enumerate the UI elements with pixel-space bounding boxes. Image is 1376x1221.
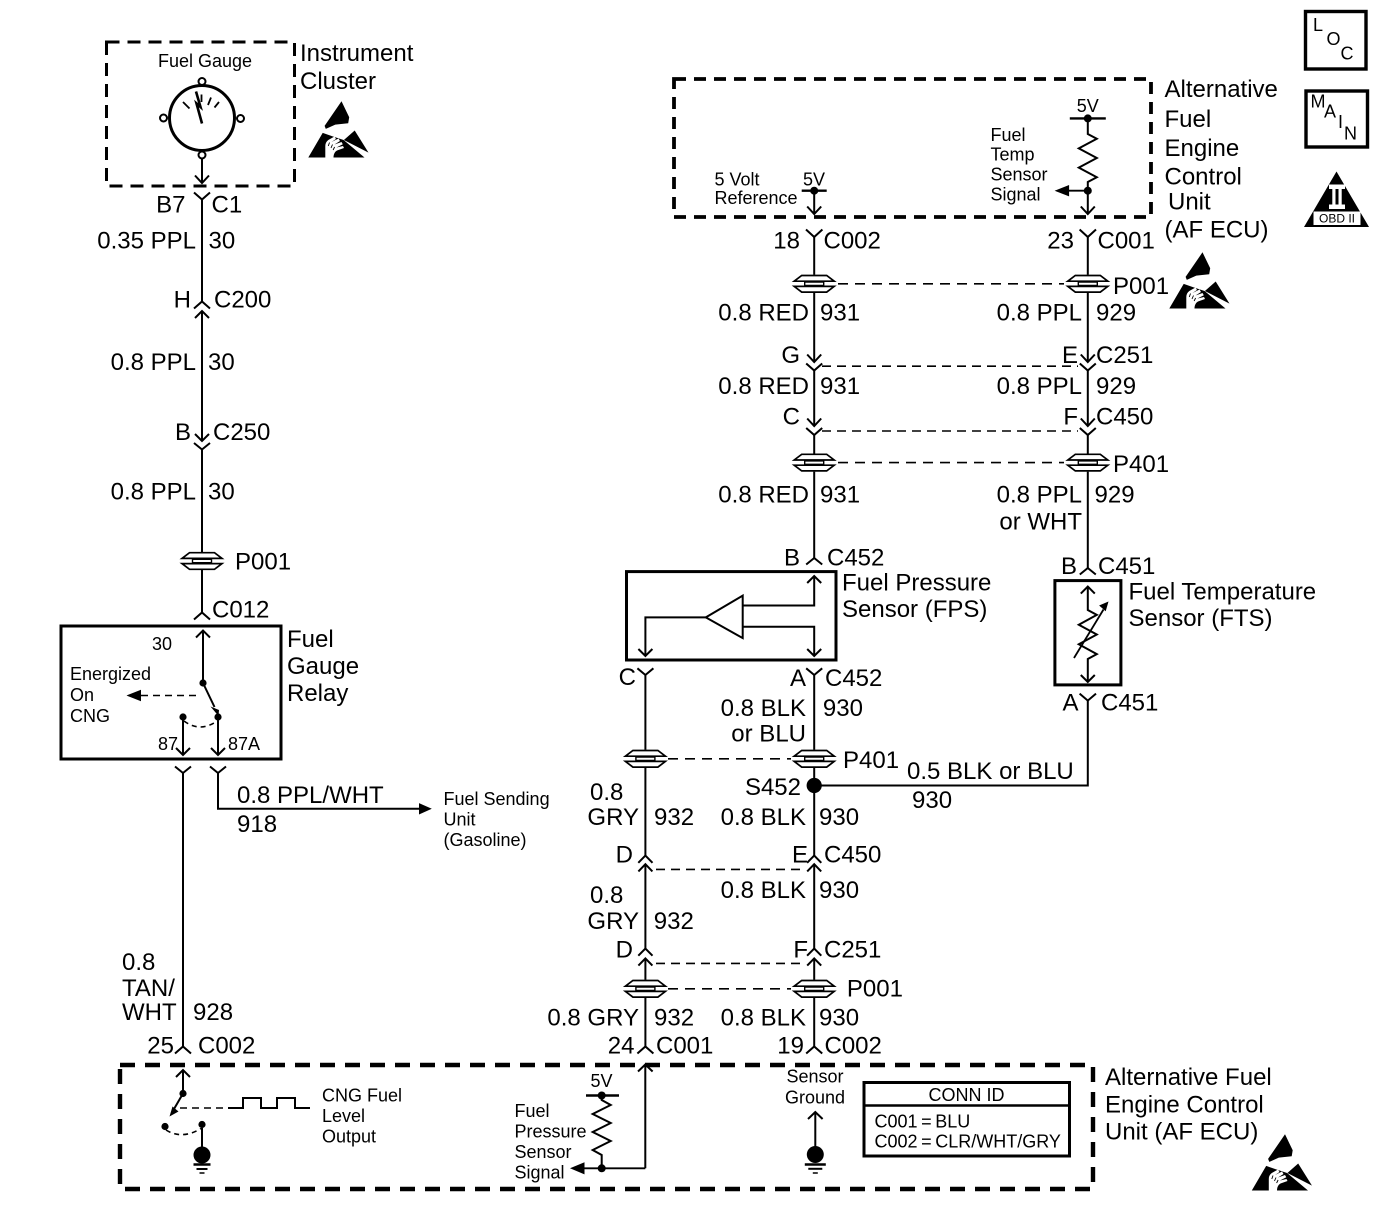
svg-text:932: 932: [654, 1005, 694, 1032]
svg-text:Output: Output: [322, 1127, 376, 1147]
svg-text:N: N: [1344, 124, 1357, 144]
P001 dashed link (lower): [668, 988, 791, 990]
OBD II symbol: [1304, 172, 1369, 228]
svg-text:Fuel Gauge: Fuel Gauge: [158, 51, 252, 71]
FPS amplifier U1: [706, 596, 743, 639]
wire to P001 (gry): [644, 958, 646, 979]
svg-text:Sensor: Sensor: [991, 165, 1048, 185]
fuel temperature sensor FTS box: [1055, 581, 1121, 685]
connector C001 pin 23: [1080, 230, 1096, 238]
svg-text:TAN/: TAN/: [122, 975, 175, 1002]
svg-text:C001: C001: [656, 1033, 713, 1060]
svg-text:Energized: Energized: [70, 664, 151, 684]
svg-text:C: C: [619, 664, 636, 691]
svg-text:0.8 PPL: 0.8 PPL: [997, 373, 1082, 400]
wire to P001 (blk): [813, 958, 815, 979]
svg-text:A: A: [1062, 690, 1078, 717]
svg-text:0.8: 0.8: [590, 779, 623, 806]
connector C450 pin E: [807, 856, 821, 872]
svg-text:C001: C001: [1098, 228, 1155, 255]
svg-text:E: E: [792, 841, 808, 868]
svg-text:Relay: Relay: [287, 680, 348, 707]
wire 0.8 GRY ckt 932 (3): [644, 864, 646, 948]
svg-text:5V: 5V: [803, 170, 825, 190]
svg-text:87: 87: [158, 734, 178, 754]
svg-text:30: 30: [152, 634, 172, 654]
wire 0.8 PPL ckt 30: [201, 311, 203, 441]
CNG switch pivot: [179, 1090, 186, 1097]
connector C452 pin C: [637, 668, 653, 675]
grommet P001 (left): [182, 553, 222, 570]
energize dashed arrow: [141, 695, 201, 697]
svg-text:H: H: [174, 287, 191, 314]
wire 0.8 PPL ckt 929: [1087, 293, 1089, 362]
P001 dashed link: [838, 283, 1064, 285]
node FPS signal junction: [598, 1164, 606, 1172]
wire 0.8 TAN/WHT ckt 928: [182, 773, 184, 1047]
relay contact 87: [179, 713, 186, 720]
connector C450 pin D: [638, 856, 652, 872]
wire to P401 (red): [813, 435, 815, 454]
ESD symbol (top right): [1169, 252, 1229, 308]
svg-text:928: 928: [193, 999, 233, 1026]
connector C250 pin B: [195, 434, 209, 441]
svg-text:(AF ECU): (AF ECU): [1165, 217, 1269, 244]
svg-text:30: 30: [209, 228, 236, 255]
connector C200 pin H: [194, 302, 210, 309]
connector C251 pin E: [1080, 355, 1096, 371]
connector C251 pin G: [806, 355, 822, 371]
svg-text:Temp: Temp: [991, 145, 1035, 165]
FPS supply input wire: [743, 576, 822, 606]
svg-text:C: C: [1341, 44, 1354, 64]
svg-text:Signal: Signal: [515, 1163, 565, 1183]
wire 0.8 PPL ckt 929 (2): [1087, 371, 1089, 427]
C251 dashed link (lower): [656, 962, 802, 964]
resistor R (FPS pull-up): [593, 1096, 611, 1169]
svg-text:Engine: Engine: [1165, 135, 1240, 162]
relay contact 87A: [214, 713, 221, 720]
CNG switch contact right: [198, 1121, 205, 1128]
svg-text:0.8 PPL: 0.8 PPL: [997, 482, 1082, 509]
svg-text:932: 932: [654, 804, 694, 831]
grommet P401 (blk): [794, 751, 834, 768]
svg-text:C251: C251: [1096, 342, 1153, 369]
svg-text:F: F: [793, 937, 808, 964]
svg-text:C452: C452: [827, 545, 884, 572]
MAIN symbol: [1306, 91, 1368, 147]
svg-text:B7: B7: [156, 192, 185, 219]
svg-text:WHT: WHT: [122, 999, 177, 1026]
CNG output dashed link: [180, 1107, 228, 1109]
svg-text:CONN ID: CONN ID: [929, 1085, 1005, 1105]
node fuel temp junction: [1084, 187, 1092, 195]
connector C452 pin B: [806, 558, 822, 565]
wire 0.8 RED ckt 931: [813, 293, 815, 362]
C251 dashed link: [822, 365, 1078, 367]
svg-text:C002: C002: [824, 228, 881, 255]
5V reference supply: [802, 170, 827, 215]
fuel pressure sensor FPS box: [627, 572, 837, 660]
connector C251 pin D: [638, 949, 652, 966]
svg-text:C002: C002: [825, 1033, 882, 1060]
svg-text:CNG Fuel: CNG Fuel: [322, 1086, 402, 1106]
wire 0.8 PPL/WHT ckt 918 to fuel sending unit: [218, 773, 421, 809]
svg-text:L: L: [1313, 15, 1323, 35]
svg-text:0.8 GRY: 0.8 GRY: [547, 1005, 639, 1032]
5V supply (fuel temp): [1070, 96, 1106, 122]
svg-text:Gauge: Gauge: [287, 653, 359, 680]
svg-text:19: 19: [777, 1033, 804, 1060]
svg-text:B: B: [175, 419, 191, 446]
svg-text:929: 929: [1095, 482, 1135, 509]
wire 0.8 RED ckt 931 (3): [813, 472, 815, 558]
svg-text:5V: 5V: [1077, 96, 1099, 116]
contact dashed link: [184, 721, 217, 727]
CNG level switch arrow to pin 25: [176, 1070, 190, 1093]
svg-text:930: 930: [819, 1005, 859, 1032]
ESD symbol (bottom right): [1252, 1134, 1312, 1191]
instrument cluster box: [107, 42, 295, 186]
svg-text:0.8 RED: 0.8 RED: [718, 373, 809, 400]
wire 0.8 BLK or BLU ckt 930: [813, 675, 815, 750]
svg-text:930: 930: [823, 695, 863, 722]
AF ECU bottom box: [120, 1065, 1093, 1189]
wire 0.8 BLK ckt 930 (3): [813, 864, 815, 948]
svg-text:Sensor: Sensor: [515, 1142, 572, 1162]
svg-text:931: 931: [820, 482, 860, 509]
svg-text:932: 932: [654, 908, 694, 935]
svg-text:P001: P001: [235, 549, 291, 576]
svg-text:Sensor (FPS): Sensor (FPS): [842, 596, 987, 623]
svg-text:Alternative: Alternative: [1165, 76, 1278, 103]
wire 0.8 RED ckt 931 (2): [813, 371, 815, 427]
FPS ground wire: [743, 627, 822, 656]
connector C002 pin 19: [806, 1047, 822, 1054]
relay pin 87A arrow: [211, 717, 225, 755]
svg-text:G: G: [781, 342, 800, 369]
svg-text:Fuel: Fuel: [1165, 106, 1212, 133]
svg-text:930: 930: [819, 804, 859, 831]
CNG switch blade: [174, 1094, 183, 1110]
svg-text:O: O: [1327, 29, 1341, 49]
sensor ground symbol: [805, 1112, 826, 1173]
contact dashed arc: [166, 1129, 201, 1135]
P401 dashed link: [838, 462, 1064, 464]
wire to P401 (ppl): [1087, 435, 1089, 454]
svg-text:Unit: Unit: [444, 810, 476, 830]
splice S452: [807, 778, 822, 793]
svg-text:30: 30: [208, 349, 235, 376]
svg-text:918: 918: [237, 811, 277, 838]
svg-text:P401: P401: [843, 747, 899, 774]
svg-text:Sensor: Sensor: [786, 1067, 843, 1087]
svg-text:C450: C450: [1096, 404, 1153, 431]
svg-text:0.8: 0.8: [122, 949, 155, 976]
grommet P001 (red): [794, 276, 834, 293]
svg-text:Fuel Temperature: Fuel Temperature: [1129, 579, 1317, 606]
svg-text:A: A: [1324, 102, 1336, 122]
svg-text:0.8 BLK: 0.8 BLK: [721, 1005, 806, 1032]
svg-text:C: C: [783, 404, 800, 431]
svg-text:or WHT: or WHT: [999, 509, 1082, 536]
svg-text:0.8 RED: 0.8 RED: [718, 482, 809, 509]
fuel temp signal arrow: [1068, 190, 1088, 192]
svg-text:B: B: [784, 545, 800, 572]
svg-text:C251: C251: [824, 937, 881, 964]
svg-text:24: 24: [608, 1033, 635, 1060]
svg-text:Signal: Signal: [991, 185, 1041, 205]
grommet P401 (red): [794, 454, 834, 471]
svg-text:931: 931: [820, 373, 860, 400]
connector C001 pin 24: [637, 1047, 653, 1054]
LOC symbol: [1306, 12, 1367, 70]
svg-text:C451: C451: [1098, 553, 1155, 580]
svg-text:25: 25: [147, 1033, 174, 1060]
C450 dashed link: [822, 430, 1078, 432]
svg-text:CNG: CNG: [70, 706, 110, 726]
connector C452 pin A: [806, 668, 822, 675]
svg-text:F: F: [1063, 404, 1078, 431]
svg-text:Unit: Unit: [1168, 189, 1211, 216]
svg-text:0.8: 0.8: [590, 882, 623, 909]
svg-text:Ground: Ground: [785, 1088, 845, 1108]
svg-text:Cluster: Cluster: [300, 68, 376, 95]
svg-text:23: 23: [1047, 228, 1074, 255]
svg-text:Sensor (FTS): Sensor (FTS): [1129, 605, 1273, 632]
connector below relay pin 87: [175, 767, 191, 774]
svg-text:On: On: [70, 685, 94, 705]
svg-text:0.5 BLK or BLU: 0.5 BLK or BLU: [907, 758, 1074, 785]
fuel gauge relay K1 box: [61, 626, 281, 759]
svg-text:0.8 PPL: 0.8 PPL: [111, 349, 196, 376]
svg-text:0.8 RED: 0.8 RED: [718, 300, 809, 327]
ESD symbol (instrument cluster): [308, 101, 368, 158]
CNG switch ground: [194, 1128, 211, 1173]
relay pin 87 arrow: [176, 717, 190, 755]
svg-text:or BLU: or BLU: [731, 721, 806, 748]
svg-text:C250: C250: [213, 419, 270, 446]
svg-text:Instrument: Instrument: [300, 40, 414, 67]
grommet P001 (blk): [794, 981, 834, 998]
svg-text:930: 930: [819, 877, 859, 904]
svg-text:P001: P001: [847, 976, 903, 1003]
C450 dashed link (lower): [656, 868, 805, 870]
wire 0.8 GRY ckt 932 (2): [644, 768, 646, 856]
svg-text:Control: Control: [1165, 164, 1242, 191]
fuel gauge M1: [158, 51, 252, 159]
connector C251 pin F: [807, 949, 821, 966]
grommet P401 (ppl): [1068, 454, 1108, 471]
connector C1 pin B7: [194, 193, 210, 200]
svg-text:C451: C451: [1101, 690, 1158, 717]
connector C451 pin B: [1080, 568, 1096, 575]
svg-text:C001 = BLU: C001 = BLU: [875, 1112, 971, 1132]
connector C451 pin A: [1080, 694, 1096, 701]
wire 23 to P001: [1087, 237, 1089, 275]
wire 0.8 PPL or WHT ckt 929 (3): [1087, 472, 1089, 568]
svg-text:929: 929: [1096, 300, 1136, 327]
svg-text:Reference: Reference: [715, 188, 798, 208]
wire fuel gauge output: [201, 159, 203, 184]
svg-text:S452: S452: [745, 774, 801, 801]
svg-text:0.35 PPL: 0.35 PPL: [97, 228, 196, 255]
svg-text:C452: C452: [825, 665, 882, 692]
svg-text:30: 30: [208, 479, 235, 506]
svg-text:C012: C012: [212, 597, 269, 624]
wire 0.35 PPL ckt 30: [201, 200, 203, 302]
wire to pin 24: [638, 1065, 653, 1169]
P401 dashed link (lower): [668, 758, 791, 760]
svg-text:Alternative Fuel: Alternative Fuel: [1105, 1064, 1272, 1091]
svg-text:I: I: [1338, 112, 1343, 132]
svg-text:5 Volt: 5 Volt: [715, 170, 760, 190]
svg-text:0.8 PPL: 0.8 PPL: [111, 479, 196, 506]
svg-text:Fuel: Fuel: [991, 125, 1026, 145]
fuel pressure sensor signal arrow: [584, 1167, 645, 1169]
svg-text:0.8 PPL/WHT: 0.8 PPL/WHT: [237, 782, 384, 809]
grommet P001 (ppl): [1068, 276, 1108, 293]
CNG switch contact left: [161, 1123, 168, 1130]
FPS output wire: [638, 617, 705, 656]
AF ECU top box: [674, 79, 1151, 217]
wire S452 to C451 pin A (0.5 BLK or BLU ckt 930): [814, 701, 1088, 786]
wire 0.8 GRY ckt 932 (4): [644, 998, 646, 1047]
relay switch blade: [203, 683, 215, 707]
grommet P401 (gry): [625, 751, 665, 768]
svg-text:C450: C450: [824, 841, 881, 868]
5V supply (FPS signal): [586, 1071, 619, 1100]
svg-text:C200: C200: [214, 287, 271, 314]
resistor R (fuel temp pull-up): [1079, 118, 1097, 190]
svg-text:5V: 5V: [590, 1071, 612, 1091]
relay switch pivot: [199, 679, 206, 686]
svg-text:(Gasoline): (Gasoline): [444, 830, 527, 850]
svg-text:B: B: [1061, 553, 1077, 580]
svg-text:18: 18: [773, 228, 800, 255]
wire 0.8 BLK ckt 930 (4): [813, 998, 815, 1047]
svg-text:C1: C1: [212, 192, 243, 219]
svg-text:930: 930: [912, 787, 952, 814]
wire to C012: [201, 569, 203, 612]
wire 0.8 BLK ckt 930 (2): [813, 786, 815, 856]
grommet P001 (gry): [625, 981, 665, 998]
svg-text:C002: C002: [198, 1033, 255, 1060]
svg-text:87A: 87A: [228, 734, 260, 754]
CONN ID table: [864, 1083, 1070, 1157]
connector below relay pin 87A: [210, 767, 226, 774]
svg-text:GRY: GRY: [587, 908, 639, 935]
svg-text:GRY: GRY: [587, 804, 639, 831]
svg-text:Fuel Sending: Fuel Sending: [444, 789, 550, 809]
wire 18 to P001: [813, 237, 815, 275]
svg-text:929: 929: [1096, 373, 1136, 400]
svg-text:Fuel: Fuel: [287, 626, 334, 653]
svg-text:P401: P401: [1113, 451, 1169, 478]
svg-text:Fuel Pressure: Fuel Pressure: [842, 570, 991, 597]
CNG output square wave: [228, 1098, 310, 1108]
wire 0.8 GRY ckt 932: [644, 675, 646, 750]
svg-text:E: E: [1062, 342, 1078, 369]
svg-text:Pressure: Pressure: [515, 1122, 587, 1142]
svg-text:0.8 BLK: 0.8 BLK: [721, 695, 806, 722]
svg-text:D: D: [616, 937, 633, 964]
svg-text:0.8 BLK: 0.8 BLK: [721, 804, 806, 831]
svg-text:0.8 BLK: 0.8 BLK: [721, 877, 806, 904]
svg-text:OBD II: OBD II: [1319, 212, 1355, 226]
FTS thermistor RT1: [1074, 587, 1109, 682]
svg-text:Level: Level: [322, 1106, 365, 1126]
connector C450 pin C: [806, 419, 822, 436]
svg-text:P001: P001: [1113, 273, 1169, 300]
svg-text:Engine Control: Engine Control: [1105, 1092, 1264, 1119]
wire to pin 23: [1081, 191, 1095, 214]
svg-text:A: A: [790, 665, 806, 692]
svg-text:C002 = CLR/WHT/GRY: C002 = CLR/WHT/GRY: [875, 1132, 1061, 1152]
svg-text:D: D: [616, 841, 633, 868]
svg-text:0.8 PPL: 0.8 PPL: [997, 300, 1082, 327]
svg-text:Fuel: Fuel: [515, 1101, 550, 1121]
connector C002 pin 18: [806, 230, 822, 238]
svg-text:Unit (AF ECU): Unit (AF ECU): [1105, 1119, 1258, 1146]
svg-text:931: 931: [820, 300, 860, 327]
wire 0.8 PPL ckt 30 (2): [201, 450, 203, 554]
connector C450 pin F: [1080, 419, 1096, 436]
connector C012: [194, 613, 210, 620]
